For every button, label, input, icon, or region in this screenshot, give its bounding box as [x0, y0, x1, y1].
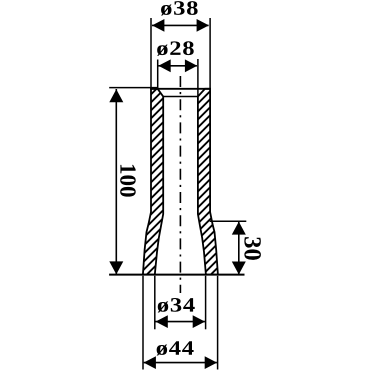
30 arrowhead top	[232, 222, 246, 235]
ø28 extension line right	[197, 59, 199, 97]
bottom face edge	[109, 274, 244, 276]
ø38 arrowhead left	[152, 19, 164, 32]
ø38 dimension line	[152, 24, 209, 26]
ø28 arrowhead right	[185, 59, 197, 72]
value label ø38	[161, 1, 198, 15]
ø38 extension line left	[150, 18, 152, 88]
100 extension line top	[109, 87, 158, 89]
ø38 extension line right	[209, 18, 211, 88]
ø34 extension line left	[154, 276, 156, 330]
top face edge	[150, 88, 211, 90]
30 dimension line	[238, 222, 240, 275]
100 arrowhead top	[109, 89, 123, 102]
right wall cross-section (hatched)	[198, 89, 218, 275]
value label ø28	[157, 41, 194, 55]
ø28 dimension line	[158, 65, 197, 67]
value label 30 (rotated)	[244, 237, 261, 260]
ø34 arrowhead right	[193, 315, 205, 328]
100 dimension line	[115, 89, 117, 274]
ø44 extension line right	[217, 276, 219, 370]
ø38 arrowhead right	[197, 19, 209, 32]
centerline (vertical dash-dot axis)	[179, 76, 181, 293]
ø28 arrowhead left	[158, 59, 170, 72]
value label 100 (rotated)	[120, 165, 136, 197]
left wall cross-section (hatched)	[143, 89, 163, 275]
ø44 extension line left	[142, 276, 144, 370]
ø44 arrowhead right	[205, 356, 217, 369]
value label ø44	[157, 341, 194, 355]
100 arrowhead bottom	[109, 261, 123, 274]
bore chamfer bottom edge	[163, 96, 198, 98]
ø44 dimension line	[144, 362, 217, 364]
value label ø34	[158, 298, 195, 312]
ø34 arrowhead left	[156, 315, 168, 328]
30 arrowhead bottom	[232, 262, 246, 275]
30 extension line top	[210, 220, 247, 222]
ø44 arrowhead left	[144, 356, 156, 369]
ø34 extension line right	[205, 276, 207, 330]
ø34 dimension line	[156, 321, 205, 323]
ø28 extension line left	[157, 60, 159, 89]
